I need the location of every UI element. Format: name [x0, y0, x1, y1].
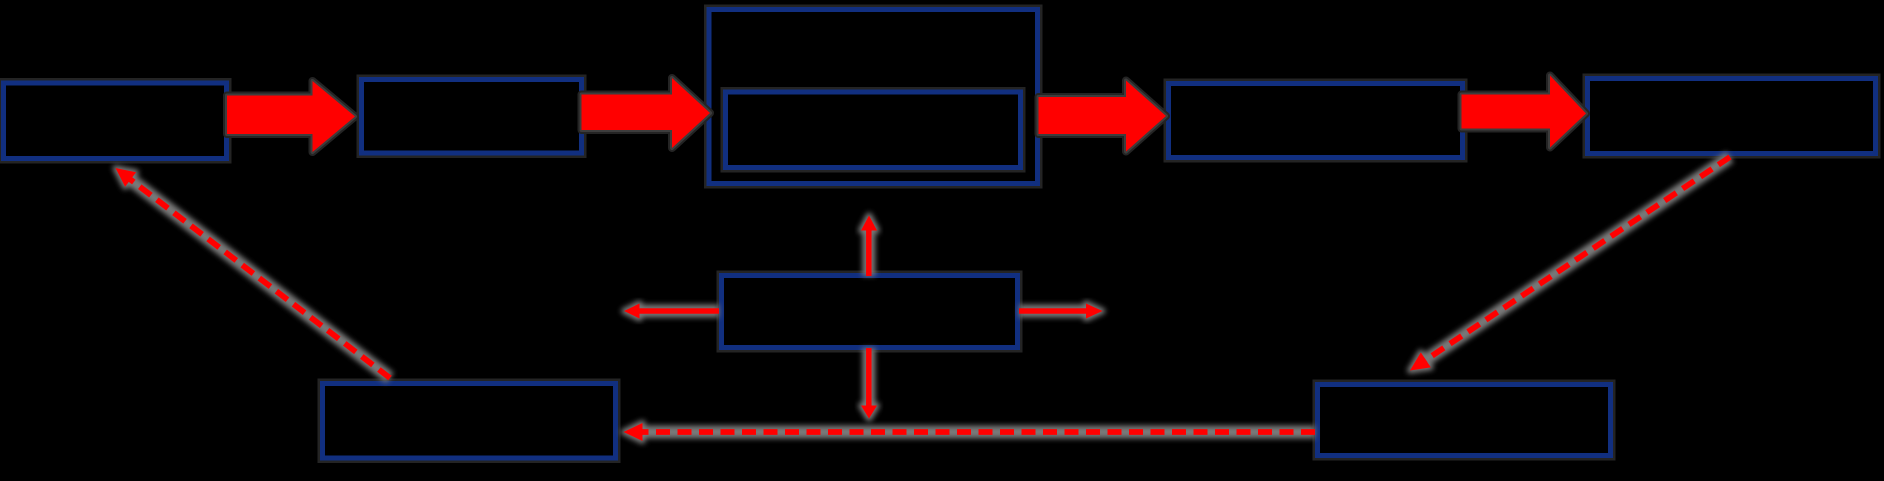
fat arrow A1 (box1 to box2) [227, 81, 355, 152]
box 3 inner box [726, 92, 1021, 168]
box 1 (top-left process box) [4, 83, 227, 159]
middle box (central hub) [722, 276, 1018, 348]
box 3 outer (large container box) [709, 10, 1038, 184]
box 5 (top-right) [1588, 79, 1876, 154]
box 4 [1169, 84, 1463, 158]
fat arrow A3 (box3 to box4) [1039, 81, 1167, 152]
dashed arrow D3 (bottom-right box to bottom-left box) [624, 423, 1316, 441]
fat arrow A2 (box2 to box3) [582, 78, 711, 148]
thin arrow down (middle box to dashed line) [861, 348, 877, 419]
bottom-left box [323, 384, 616, 459]
dashed arrow D1 (bottom-left box to box1) [116, 168, 391, 378]
bottom-right box [1318, 385, 1611, 456]
thin arrow left (middle box to left) [624, 304, 719, 319]
thin arrow right (middle box to right) [1019, 304, 1103, 319]
fat arrow A4 (box4 to box5) [1462, 76, 1587, 148]
box 2 [362, 80, 582, 154]
thin arrow up (middle box to box3) [861, 216, 877, 277]
dashed arrow D2 (box5 to bottom-right box) [1410, 157, 1730, 371]
